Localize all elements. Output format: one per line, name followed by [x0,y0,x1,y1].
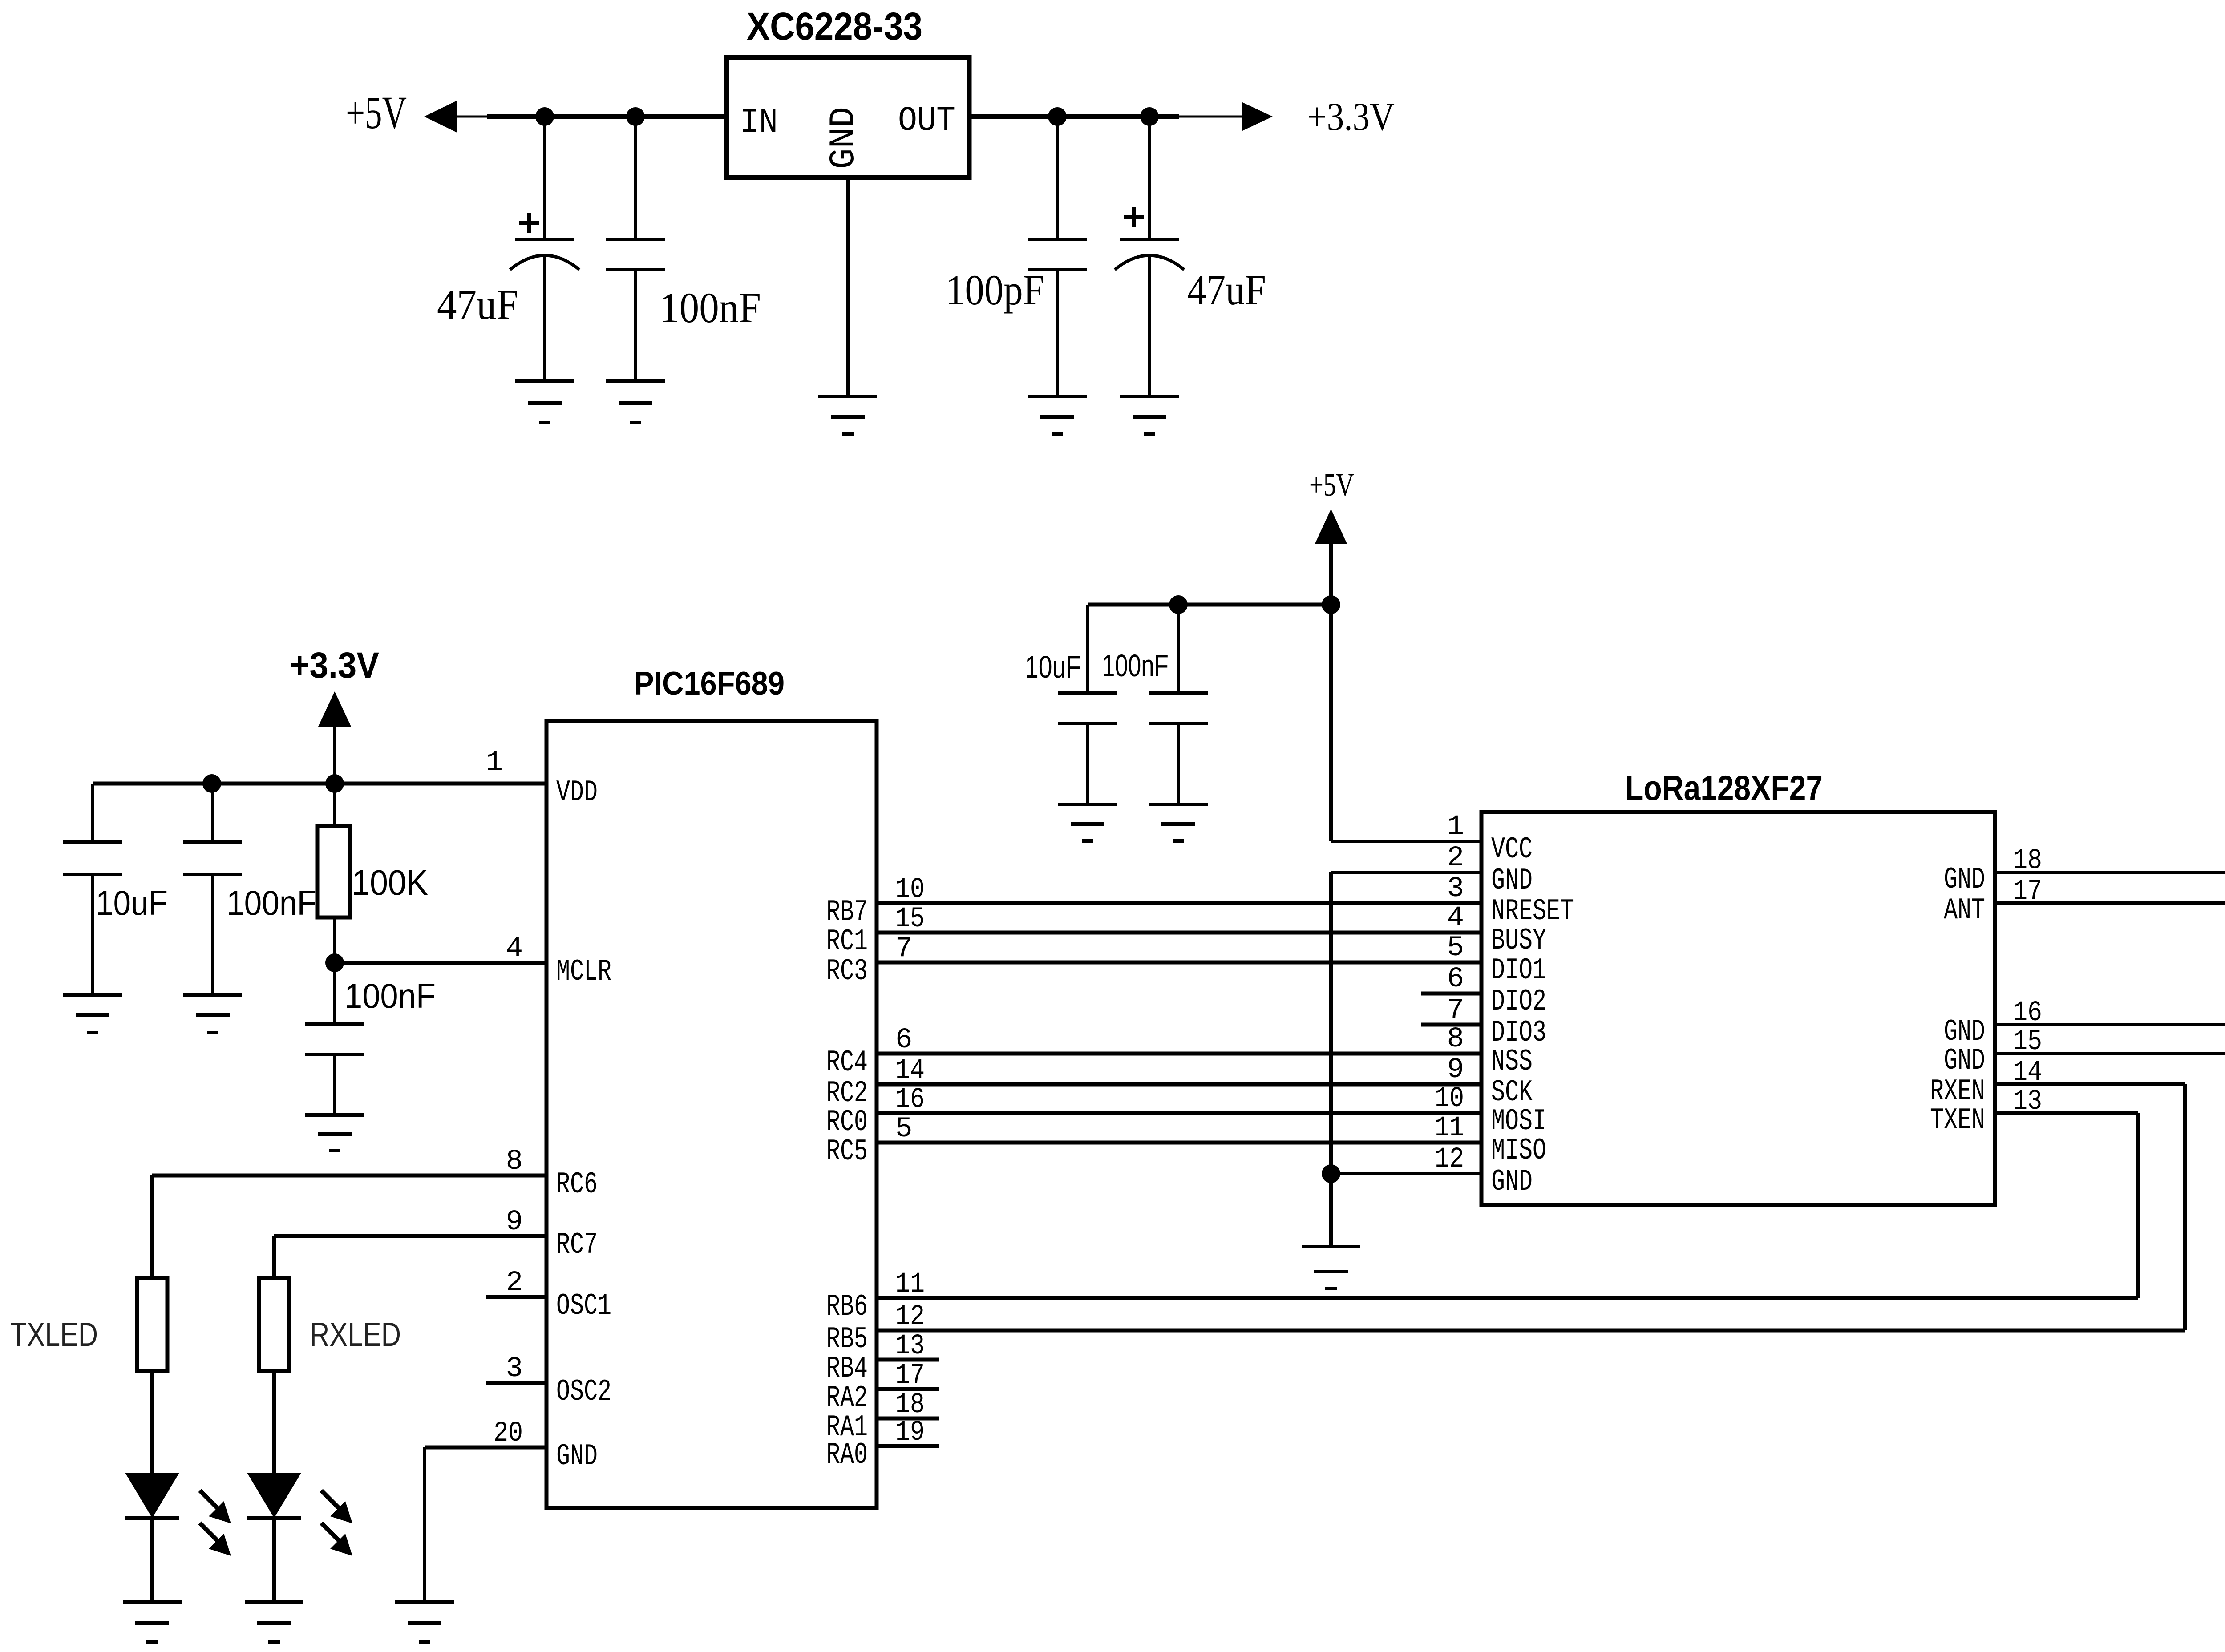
wire +5V rail to regulator IN [457,116,727,118]
label PIC16F689 [634,666,785,702]
wire DIO3 stub [1421,1023,1481,1027]
pin number 1 (PIC VDD) [486,747,503,779]
svg-text:100K: 100K [352,863,428,902]
wire RC7 to RXLED resistor [274,1236,546,1278]
wire RB6 to TXEN [877,1113,2138,1298]
pin number 2 (LoRa GND) [1447,842,1464,874]
svg-text:12: 12 [1435,1143,1464,1175]
pin label RC7 (PIC pin 9) [556,1228,598,1262]
wire RA2 stub (pin 17) [877,1387,939,1391]
svg-text:7: 7 [1447,994,1464,1026]
value label 47uF (output) [1187,266,1266,314]
junction node on OUT rail (100pF) [1048,107,1067,126]
wire MCLR to PIC pin 4 [335,961,546,965]
svg-text:14: 14 [895,1055,925,1087]
svg-text:VDD: VDD [556,776,598,810]
svg-text:+5V: +5V [346,87,407,138]
pin number 1 (LoRa VCC) [1447,811,1464,843]
pin number 8 (PIC RC6) [506,1146,523,1178]
pin label RXEN (LoRa pin 14) [1930,1074,1985,1109]
svg-text:RA0: RA0 [826,1438,868,1472]
pin number 16 (LoRa GND) [2013,997,2042,1029]
junction node VDD rail (100nF) [202,774,221,793]
pin label RC2 (PIC pin 14) [826,1076,868,1111]
ground (LoRa 10uF) [1058,804,1117,841]
pin number 7 (LoRa DIO3) [1447,994,1464,1026]
svg-text:RC3: RC3 [826,954,868,989]
svg-text:OSC1: OSC1 [556,1289,611,1323]
wire RB7 to NRESET [877,901,1481,905]
pin number 9 (LoRa SCK) [1447,1054,1464,1086]
LED TXLED [125,1371,231,1602]
svg-text:GND: GND [556,1439,598,1474]
svg-text:15: 15 [895,903,925,935]
wire RB5 to RXEN [877,1084,2185,1330]
pin label DIO1 (LoRa pin 5) [1491,953,1546,988]
pin label TXEN (LoRa pin 13) [1930,1103,1985,1138]
svg-text:OUT: OUT [898,101,955,141]
label XC6228-33 [747,5,922,48]
ground (under input 100nF) [606,381,665,423]
resistor TXLED series [137,1278,167,1371]
svg-text:RXLED: RXLED [310,1316,401,1353]
capacitor 47uF input electrolytic [510,117,579,381]
svg-text:2: 2 [1447,842,1464,874]
pin label RC3 (PIC pin 7) [826,954,868,989]
ground (regulator GND) [818,396,877,434]
pin number 4 (PIC MCLR) [506,933,523,965]
wire +5V branch to decoupling caps [1088,603,1331,607]
svg-text:20: 20 [494,1418,523,1450]
svg-text:8: 8 [506,1146,523,1178]
svg-text:16: 16 [895,1084,925,1116]
value label 47uF (input) [437,281,518,328]
svg-text:10uF: 10uF [96,883,168,922]
svg-text:3: 3 [1447,873,1464,905]
pin label RC1 (PIC pin 15) [826,925,868,959]
wire GND pin 15 [1995,1052,2225,1055]
svg-text:+3.3V: +3.3V [1307,95,1395,139]
pin number 14 (LoRa RXEN) [2013,1057,2042,1089]
svg-text:3: 3 [506,1353,523,1385]
svg-text:RC7: RC7 [556,1228,598,1262]
svg-text:RC5: RC5 [826,1135,868,1169]
pin label DIO3 (LoRa pin 7) [1491,1016,1546,1050]
svg-text:+5V: +5V [1309,467,1354,503]
wire RC4 to NSS [877,1052,1481,1056]
pin number 10 (PIC RB7) [895,874,925,906]
svg-text:RC4: RC4 [826,1046,868,1080]
svg-text:TXEN: TXEN [1930,1103,1985,1138]
pin label RA0 (PIC pin 19) [826,1438,868,1472]
pin label OSC1 (PIC pin 2) [556,1289,611,1323]
wire regulator GND pin [846,178,850,396]
value label 100nF (input) [659,284,761,331]
net label +3.3V (top) [1307,95,1395,139]
pin number 12 (LoRa GND) [1435,1143,1464,1175]
pin label GND (LoRa pin 16) [1944,1015,1985,1049]
pin label RB4 (PIC pin 13) [826,1352,868,1386]
label LoRa128XF27 [1625,768,1823,808]
junction node +5V branch [1322,595,1340,614]
pin number 18 (PIC RA1) [895,1389,925,1421]
net label +5V (LoRa supply) [1309,467,1354,503]
svg-text:1: 1 [486,747,503,779]
pin number 7 (PIC RC3) [895,933,912,965]
svg-text:6: 6 [1447,963,1464,995]
svg-text:RC6: RC6 [556,1167,598,1202]
wire RA1 stub (pin 18) [877,1417,939,1421]
pin label GND (LoRa pin 15) [1944,1044,1985,1078]
capacitor 100pF output [1028,117,1087,396]
pin number 11 (PIC RB6) [895,1268,925,1301]
resistor RXLED series [259,1278,289,1371]
pin label GND (rotated) [824,107,864,169]
capacitor 10uF on VDD [63,784,122,995]
pin number 20 (PIC GND) [494,1418,523,1450]
svg-text:ANT: ANT [1944,893,1985,928]
svg-text:100nF: 100nF [344,976,436,1015]
pin number 4 (LoRa BUSY) [1447,902,1464,934]
pin label NRESET (LoRa pin 3) [1491,894,1574,929]
svg-text:IN: IN [740,103,778,142]
junction node on OUT rail (47uF) [1140,107,1159,126]
ground (under VDD 10uF) [63,995,122,1033]
pin number 13 (PIC RB4) [895,1330,925,1362]
svg-text:GND: GND [1944,863,1985,897]
svg-text:10: 10 [895,874,925,906]
label TXLED [10,1316,98,1353]
svg-text:MISO: MISO [1491,1134,1546,1168]
pin number 9 (PIC RC7) [506,1206,523,1238]
wire RC6 to TXLED resistor [152,1175,546,1278]
svg-text:PIC16F689: PIC16F689 [634,666,785,702]
value label 100pF [946,266,1044,314]
wire RC5 to MISO [877,1141,1481,1145]
pin label GND (PIC pin 20) [556,1439,598,1474]
pin label SCK (LoRa pin 9) [1491,1075,1533,1110]
pin number 16 (PIC RC0) [895,1084,925,1116]
svg-text:VCC: VCC [1491,832,1533,867]
svg-text:RB6: RB6 [826,1290,868,1324]
value label 100nF (VDD) [227,883,316,922]
svg-text:GND: GND [1491,1165,1533,1199]
pin number 2 (PIC OSC1) [506,1267,523,1299]
junction node MCLR [325,953,344,972]
wire +5V down to VCC [1329,544,1333,841]
pin label VCC (LoRa pin 1) [1491,832,1533,867]
svg-text:RC1: RC1 [826,925,868,959]
svg-text:GND: GND [824,107,864,169]
svg-text:TXLED: TXLED [10,1316,98,1353]
capacitor 100nF input [606,117,665,381]
svg-text:6: 6 [895,1024,912,1056]
svg-text:100pF: 100pF [946,266,1044,314]
power port arrow +5V [424,101,457,133]
value label 100K [352,863,428,902]
pin label RC5 (PIC pin 5) [826,1135,868,1169]
pin label DIO2 (LoRa pin 6) [1491,985,1546,1019]
pin label IN [740,103,778,142]
wire DIO2 stub [1421,992,1481,996]
value label 10uF (VDD) [96,883,168,922]
pin number 13 (LoRa TXEN) [2013,1086,2042,1118]
wire VDD rail [93,782,546,786]
svg-text:GND: GND [1491,864,1533,898]
pin label RA2 (PIC pin 17) [826,1381,868,1415]
junction node on +5V rail (47uF) [535,107,554,126]
pin number 6 (PIC RC4) [895,1024,912,1056]
pin number 17 (LoRa ANT) [2013,876,2042,908]
svg-text:5: 5 [1447,932,1464,964]
svg-text:13: 13 [895,1330,925,1362]
svg-text:10: 10 [1435,1083,1464,1115]
pin number 5 (LoRa DIO1) [1447,932,1464,964]
wire RC2 to SCK [877,1082,1481,1087]
svg-text:DIO1: DIO1 [1491,953,1546,988]
wire OSC1 stub [486,1295,546,1299]
wire RC1 to BUSY [877,931,1481,935]
ground (RXLED) [245,1602,303,1642]
pin number 11 (LoRa MISO) [1435,1112,1464,1144]
pin label OSC2 (PIC pin 3) [556,1375,611,1409]
svg-text:LoRa128XF27: LoRa128XF27 [1625,768,1823,808]
pin label MISO (LoRa pin 11) [1491,1134,1546,1168]
pin number 14 (PIC RC2) [895,1055,925,1087]
svg-text:7: 7 [895,933,912,965]
net label +3.3V (PIC supply) [290,645,379,686]
wire RC0 to MOSI [877,1111,1481,1115]
svg-text:100nF: 100nF [659,284,761,331]
svg-text:11: 11 [1435,1112,1464,1144]
ground (TXLED) [123,1602,182,1642]
capacitor 100nF on VDD [183,784,242,995]
svg-text:OSC2: OSC2 [556,1375,611,1409]
wire OSC2 stub [486,1381,546,1385]
wire GND pin 18 to bus [1995,871,2225,874]
pin label OUT [898,101,955,141]
value label 100nF (LoRa) [1102,648,1169,683]
capacitor 47uF output electrolytic [1115,117,1184,396]
voltage regulator U1 XC6228-33 body [727,57,969,178]
LED RXLED [247,1371,352,1602]
wire VCC pin 1 [1331,840,1481,843]
pin label GND (LoRa pin 12) [1491,1165,1533,1199]
wire PIC GND pin 20 [425,1447,546,1602]
pin number 5 (PIC RC5) [895,1113,912,1145]
pin number 17 (PIC RA2) [895,1360,925,1392]
svg-text:+3.3V: +3.3V [290,645,379,686]
capacitor 100nF on MCLR [305,963,364,1115]
ground (LoRa 100nF) [1149,804,1208,841]
pin label VDD (PIC pin 1) [556,776,598,810]
svg-text:19: 19 [895,1417,925,1449]
pin label RC4 (PIC pin 6) [826,1046,868,1080]
resistor 100K MCLR pull-up [317,784,350,963]
capacitor 100nF on LoRa VCC [1149,605,1208,804]
svg-text:5: 5 [895,1113,912,1145]
value label 100nF (MCLR) [344,976,436,1015]
ground (LoRa GND) [1302,1247,1360,1288]
svg-text:47uF: 47uF [1187,266,1266,314]
junction node VDD rail (100K) [325,774,344,793]
net label +5V [346,87,407,138]
wire OUT to +3.3V arrow [969,114,1246,119]
label RXLED [310,1316,401,1353]
ground (under 100pF) [1028,396,1087,434]
pin label BUSY (LoRa pin 4) [1491,924,1546,958]
pin number 15 (LoRa GND) [2013,1026,2042,1058]
pin label RB6 (PIC pin 11) [826,1290,868,1324]
wire GND pin 16 [1995,1023,2225,1026]
svg-text:4: 4 [506,933,523,965]
junction node on +5V rail (100nF) [626,107,645,126]
pin label RA1 (PIC pin 18) [826,1410,868,1445]
svg-text:XC6228-33: XC6228-33 [747,5,922,48]
svg-text:12: 12 [895,1301,925,1333]
svg-text:BUSY: BUSY [1491,924,1546,958]
RF module U3 LoRa128XF27 body [1481,812,1995,1205]
svg-text:47uF: 47uF [437,281,518,328]
wire +3.3V arrow to VDD rail [333,727,336,784]
svg-text:10uF: 10uF [1025,650,1081,684]
pin number 10 (LoRa MOSI) [1435,1083,1464,1115]
ground (under input 47uF) [515,381,574,423]
svg-text:100nF: 100nF [227,883,316,922]
pin label MOSI (LoRa pin 10) [1491,1104,1546,1139]
pin label RC0 (PIC pin 16) [826,1105,868,1139]
svg-text:GND: GND [1944,1044,1985,1078]
power port arrow +3.3V (up) [318,691,351,727]
pin number 12 (PIC RB5) [895,1301,925,1333]
pin number 3 (PIC OSC2) [506,1353,523,1385]
svg-text:8: 8 [1447,1023,1464,1055]
value label 10uF (LoRa) [1025,650,1081,684]
pin label MCLR (PIC pin 4) [556,955,611,989]
wire ANT pin 17 to antenna [1995,901,2225,905]
power port arrow +3.3V (output) [1242,102,1273,131]
svg-text:NSS: NSS [1491,1045,1533,1079]
wire GND pin 12 [1331,1172,1481,1175]
junction node branch (100nF) [1169,595,1188,614]
svg-text:9: 9 [506,1206,523,1238]
pin number 6 (LoRa DIO2) [1447,963,1464,995]
pin number 3 (LoRa NRESET) [1447,873,1464,905]
svg-text:DIO2: DIO2 [1491,985,1546,1019]
svg-text:9: 9 [1447,1054,1464,1086]
ground (under VDD 100nF) [183,995,242,1033]
junction node GND bus [1322,1164,1340,1183]
pin label RB7 (PIC pin 10) [826,895,868,929]
svg-text:17: 17 [895,1360,925,1392]
wire RC3 to DIO1 [877,961,1481,965]
pin number 15 (PIC RC1) [895,903,925,935]
pin number 8 (LoRa NSS) [1447,1023,1464,1055]
wire RA0 stub (pin 19) [877,1444,939,1448]
pin label NSS (LoRa pin 8) [1491,1045,1533,1079]
ground (under MCLR 100nF) [305,1115,364,1151]
pin number 19 (PIC RA0) [895,1417,925,1449]
pin label GND (LoRa pin 2) [1491,864,1533,898]
svg-text:2: 2 [506,1267,523,1299]
svg-text:100nF: 100nF [1102,648,1169,683]
ground (under output 47uF) [1120,396,1179,434]
svg-text:1: 1 [1447,811,1464,843]
svg-text:11: 11 [895,1268,925,1301]
pin label GND (LoRa pin 18) [1944,863,1985,897]
power port arrow +5V (up) [1315,509,1347,544]
pin number 18 (LoRa GND) [2013,845,2042,877]
svg-text:4: 4 [1447,902,1464,934]
pin label RB5 (PIC pin 12) [826,1322,868,1357]
pin label ANT (LoRa pin 17) [1944,893,1985,928]
microcontroller U2 PIC16F689 body [546,721,877,1508]
capacitor 10uF on LoRa VCC [1058,605,1117,804]
wire RB4 stub (pin 13) [877,1358,939,1362]
wire GND pin 2 and GND bus [1331,872,1481,1247]
svg-text:MCLR: MCLR [556,955,611,989]
pin label RC6 (PIC pin 8) [556,1167,598,1202]
ground (PIC GND) [395,1602,454,1642]
